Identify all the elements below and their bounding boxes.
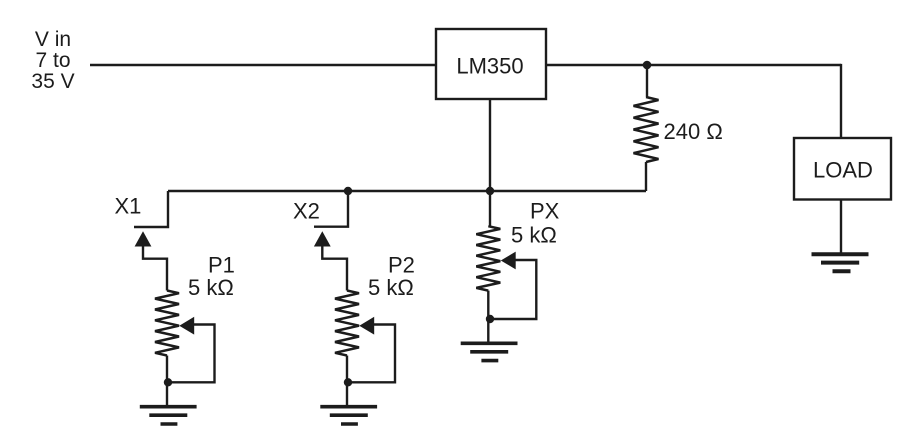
regulator U1 LM350 xyxy=(436,29,546,99)
wire P2 bottom to ground xyxy=(346,356,348,406)
wiper arrow PX xyxy=(501,252,516,270)
svg-text:7 to: 7 to xyxy=(35,49,70,72)
svg-text:P2: P2 xyxy=(388,253,415,278)
wire X1 wiper to P1 top xyxy=(143,246,167,291)
wire top rail down to LOAD xyxy=(840,64,842,138)
potentiometer PX xyxy=(476,226,500,290)
potentiometer P1 xyxy=(155,291,179,356)
wire X2 wiper to P2 top xyxy=(322,246,347,291)
wiper arrow X2 xyxy=(314,231,331,246)
wire resistor bottom to adjust rail xyxy=(645,162,647,191)
wire junction to resistor top xyxy=(646,65,648,97)
potentiometer P2 xyxy=(335,291,359,356)
svg-text:X2: X2 xyxy=(293,199,320,224)
svg-text:PX: PX xyxy=(530,199,560,224)
wiper arrow P1 xyxy=(179,317,194,335)
node P1 wiper junction xyxy=(164,378,172,386)
wire LOAD to ground xyxy=(840,200,842,253)
wire P2 wiper return xyxy=(348,325,395,383)
node PX wiper junction xyxy=(486,315,494,323)
svg-text:240 Ω: 240 Ω xyxy=(664,119,723,144)
node Vin label xyxy=(31,28,74,93)
wire PX wiper return xyxy=(490,260,536,319)
node P2 wiper junction xyxy=(344,378,352,386)
wire X1 terminal xyxy=(134,191,168,227)
wire input rail to LM350 xyxy=(90,64,436,66)
wire LM350 adjust pin xyxy=(489,99,491,191)
svg-text:5 kΩ: 5 kΩ xyxy=(368,275,414,300)
wire adjust rail xyxy=(168,190,646,192)
wire P1 wiper return xyxy=(169,325,215,383)
wiper arrow X1 xyxy=(135,231,152,246)
node output junction xyxy=(643,61,652,70)
ground under LOAD xyxy=(812,254,869,271)
resistor 240 ohm xyxy=(634,97,659,162)
svg-text:35 V: 35 V xyxy=(31,70,74,93)
svg-text:LOAD: LOAD xyxy=(813,158,873,183)
ground under P1 xyxy=(140,407,197,424)
svg-text:V in: V in xyxy=(35,28,71,51)
svg-text:5 kΩ: 5 kΩ xyxy=(511,223,557,248)
wire P1 bottom to ground xyxy=(166,356,168,406)
wire adjust junction to PX top xyxy=(489,191,491,226)
load block LOAD xyxy=(794,138,891,200)
node adjust junction xyxy=(486,187,494,195)
svg-text:X1: X1 xyxy=(115,194,142,219)
svg-text:LM350: LM350 xyxy=(456,54,523,79)
wire X2 terminal xyxy=(314,191,348,227)
wire PX bottom to ground xyxy=(487,291,489,342)
ground under P2 xyxy=(320,407,377,424)
svg-text:5 kΩ: 5 kΩ xyxy=(188,275,234,300)
wiper arrow P2 xyxy=(359,317,374,335)
ground under PX xyxy=(461,343,518,360)
node X2 junction xyxy=(344,187,352,195)
svg-text:P1: P1 xyxy=(208,253,235,278)
wire LM350 output to right corner xyxy=(546,64,841,66)
